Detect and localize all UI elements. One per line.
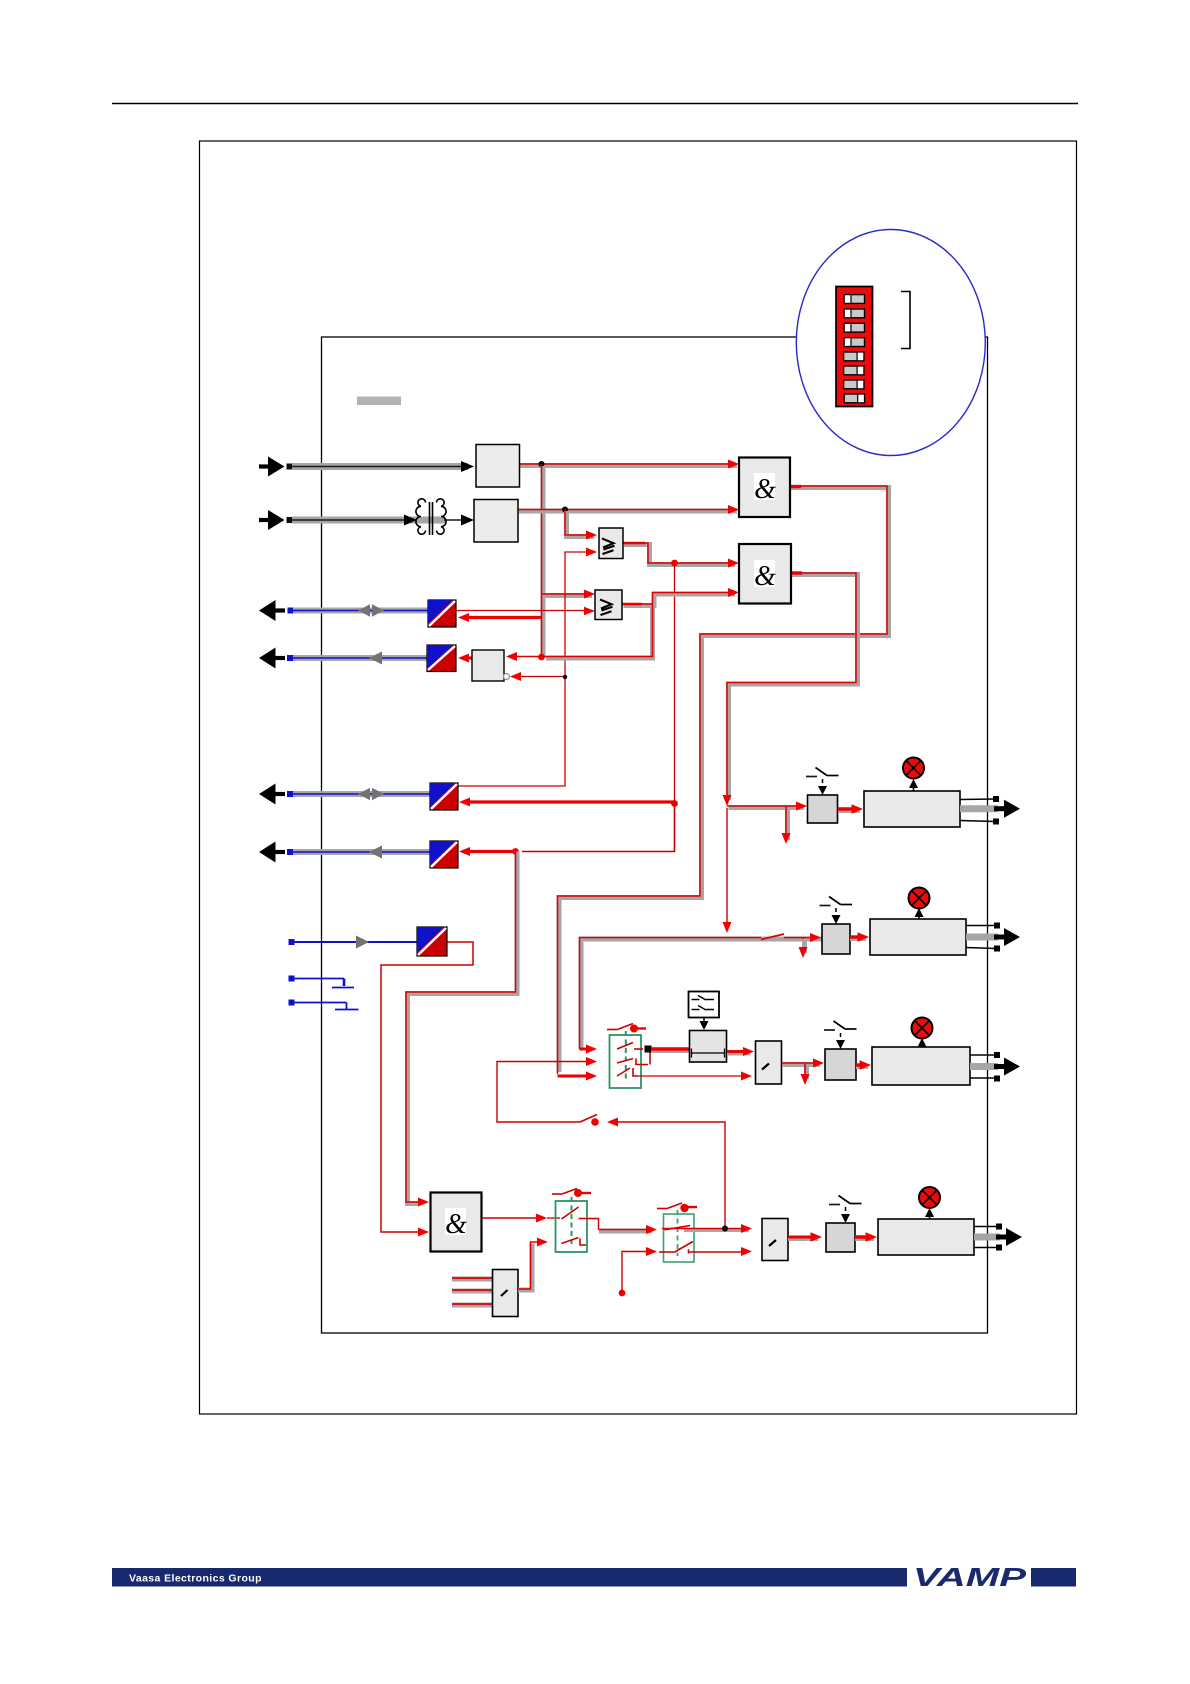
wire S1b to K1 [838, 804, 863, 813]
latch release switch above L1 [607, 1024, 646, 1033]
note ellipse [796, 230, 985, 456]
K4 contacts and output arrow [974, 1224, 1022, 1251]
switch box S3b [825, 1049, 856, 1080]
digital input stub D2 [289, 1000, 359, 1010]
wire W2b return into X1 [458, 613, 542, 622]
measuring box T2 [474, 500, 518, 543]
wire W5 X3 output up to OR U3 in2 and A1 [457, 548, 597, 787]
node dot black at 565,510 [562, 507, 568, 513]
relay K2 [870, 919, 966, 955]
switch box S2b [822, 924, 850, 954]
node K1a junction dot [539, 461, 545, 467]
wire S4b to K4 [855, 1232, 877, 1241]
switch box S4b [826, 1223, 855, 1252]
latch L1 output to timer T3 [651, 1049, 690, 1051]
transformer TR1 [416, 499, 446, 535]
inner frame [322, 337, 988, 1333]
svg-text:&: & [754, 474, 776, 505]
relay K4 [878, 1219, 974, 1255]
AND gate U1 [739, 458, 790, 518]
inverter N1 [756, 1041, 782, 1084]
latch L1 row3 output line [638, 1075, 748, 1077]
timer box T3 [690, 1031, 727, 1063]
wire W11 AND U2 output loop [723, 573, 858, 933]
wire S3b to K3 [856, 1060, 871, 1069]
wire W1 T1 output to AND U1 [519, 460, 739, 469]
M1 output to L2 in2 [518, 1238, 548, 1291]
bracket [901, 292, 910, 349]
wire U5 out to latch L2 [482, 1214, 560, 1223]
release switch above L3 [657, 1203, 697, 1212]
lamp H4 [919, 1187, 940, 1219]
input arrow I1 [259, 457, 474, 477]
output arrow O4 row6 [259, 842, 430, 863]
blocking switch SW4 above S4b [829, 1196, 862, 1224]
wire X1 to OR U4 thin [456, 610, 592, 612]
wire T3 to N1 [727, 1047, 754, 1056]
node dot red 515,852 [512, 848, 519, 855]
measuring box T1 [476, 445, 520, 488]
converter X4 row6 [430, 841, 458, 868]
wire N1 to S3b [782, 1059, 824, 1086]
relay K3 [872, 1047, 970, 1085]
matched filter M1 [452, 1270, 518, 1317]
node dot red at 541,657 [538, 654, 545, 661]
wire W16 reset line [497, 1057, 725, 1228]
lamp H2 [909, 888, 930, 920]
svg-text:&: & [754, 561, 776, 592]
output arrow O3 row5 [259, 784, 430, 805]
output arrow O1 row3 [259, 600, 428, 621]
wire W12 row1 relay feed [727, 802, 807, 845]
K2 contacts and output arrow [966, 923, 1020, 952]
wire W6 OR U3 output to AND U2 in1 [623, 543, 739, 568]
AND gate U5 [431, 1193, 482, 1252]
L2 output to L3 [583, 1219, 658, 1235]
footer bar [112, 1562, 1076, 1592]
lamp H3 [912, 1018, 933, 1048]
wire W4 branch to OR U3 in1 [565, 510, 597, 540]
K3 contacts and output arrow [970, 1052, 1020, 1082]
switch box S1b [808, 795, 838, 823]
input row7 blue [289, 936, 418, 949]
node dot red at 674.5,563 [671, 560, 678, 567]
latch L1 green box [610, 1031, 642, 1088]
latch L2 green box [556, 1197, 588, 1252]
node dot 648,1049 [645, 1046, 652, 1053]
OR gate U3 [599, 528, 623, 559]
L2 blades [562, 1207, 587, 1245]
blocking switch SW2 above S2b [820, 897, 853, 925]
header rule [112, 103, 1078, 105]
wire W18 thick path to AND U5 in1 [406, 852, 517, 1207]
AND gate U2 [739, 544, 791, 604]
outer frame [200, 141, 1077, 1414]
gray label bar [357, 397, 401, 406]
relay K1 [864, 791, 960, 827]
digital input stub D1 [289, 976, 355, 988]
latch L1 blades [617, 1043, 650, 1077]
wire S2b to K2 [850, 932, 869, 941]
converter X1 row3 [428, 600, 456, 627]
converter X5 row7 [417, 927, 447, 956]
lamp H1 [903, 758, 924, 792]
input arrow I2 [259, 510, 474, 530]
wire W7 down to X3 and X4 rows [459, 563, 678, 856]
L3 outputs to N2 [659, 1224, 752, 1256]
annunciator box A1 [472, 650, 510, 681]
svg-text:&: & [445, 1209, 467, 1240]
latch L3 green box [664, 1210, 695, 1262]
K1 contacts and output arrow [960, 796, 1020, 825]
release switch above L2 [552, 1189, 591, 1198]
filter box F1 [689, 992, 720, 1031]
svg-text:Vaasa Electronics Group: Vaasa Electronics Group [129, 1573, 262, 1585]
converter X3 row5 [430, 783, 458, 810]
L3 blades [665, 1226, 694, 1254]
wire W9 A1 output to X2 [458, 654, 472, 663]
wire N2 to S4b [788, 1232, 822, 1241]
wire W17 X5 output to AND U5 [381, 942, 473, 1237]
svg-text:VAMP: VAMP [913, 1562, 1027, 1592]
L3 lower input from below [619, 1247, 657, 1296]
blocking switch SW1 above S1b [806, 768, 839, 796]
wire W8 OR U4 output paths [506, 588, 739, 661]
DIP switch S1 [836, 287, 873, 407]
inverter N2 [762, 1219, 788, 1261]
converter X2 row4 [427, 645, 456, 672]
OR gate U4 [595, 590, 622, 620]
blocking switch SW3 above S3b [824, 1021, 857, 1049]
wire W2 vertical from T1 output [542, 464, 596, 657]
wire W13 row2 line [580, 933, 825, 1054]
wire W10 AND U1 output long loop [558, 486, 889, 1081]
wire W3 T2 output to AND U1 in2 [518, 505, 739, 514]
output arrow O2 row4 [259, 648, 427, 669]
